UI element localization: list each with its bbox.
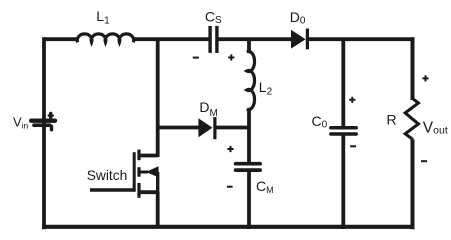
svg-text:D0: D0 [290,9,306,27]
svg-text:L2: L2 [259,79,273,98]
svg-text:CM: CM [256,178,274,195]
svg-text:CS: CS [205,8,222,26]
svg-text:Vin: Vin [13,114,29,130]
svg-text:C0: C0 [312,113,328,131]
svg-text:R: R [387,112,397,128]
svg-text:DM: DM [199,99,217,119]
svg-text:L1: L1 [96,8,110,27]
svg-text:Switch: Switch [87,168,128,183]
svg-text:Vout: Vout [423,119,448,136]
